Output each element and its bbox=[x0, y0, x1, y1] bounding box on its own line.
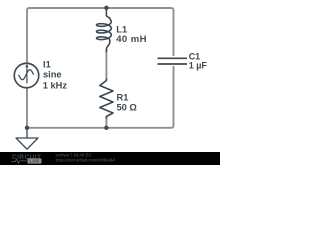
inductor L1 bbox=[97, 8, 112, 52]
junction dot top-middle bbox=[104, 6, 108, 10]
capacitor C1 bottom plate bbox=[158, 63, 188, 65]
ground triangle bbox=[16, 138, 38, 149]
svg-text:R1: R1 bbox=[117, 93, 129, 103]
svg-text:I1: I1 bbox=[43, 60, 51, 70]
wire: top rail bbox=[27, 8, 174, 63]
wire: bottom rail bbox=[27, 66, 174, 128]
junction dot bottom-middle bbox=[104, 126, 108, 130]
svg-text:50 Ω: 50 Ω bbox=[117, 102, 138, 112]
footer logo LAB box bbox=[28, 158, 42, 163]
ground stub bbox=[26, 128, 28, 138]
junction dot bottom-left bbox=[25, 126, 29, 130]
svg-text:1 µF: 1 µF bbox=[189, 61, 208, 71]
source I1 circle bbox=[14, 63, 39, 88]
source I1 arrow shaft bbox=[26, 67, 28, 83]
svg-text:40 mH: 40 mH bbox=[116, 34, 147, 45]
svg-text:1 kHz: 1 kHz bbox=[43, 80, 68, 90]
footer bar bbox=[0, 152, 220, 165]
source I1 arrow head bbox=[25, 64, 28, 68]
resistor R1 bbox=[100, 79, 113, 119]
svg-text:sine: sine bbox=[43, 70, 62, 80]
svg-text:LAB: LAB bbox=[29, 159, 39, 164]
capacitor C1 top plate bbox=[158, 57, 188, 59]
source I1 sine wave bbox=[19, 70, 34, 80]
svg-text:http://circuitlab.com/c6tka64: http://circuitlab.com/c6tka64 bbox=[56, 157, 116, 162]
wire: middle branch bbox=[105, 50, 107, 128]
footer logo squiggle bbox=[12, 159, 27, 163]
